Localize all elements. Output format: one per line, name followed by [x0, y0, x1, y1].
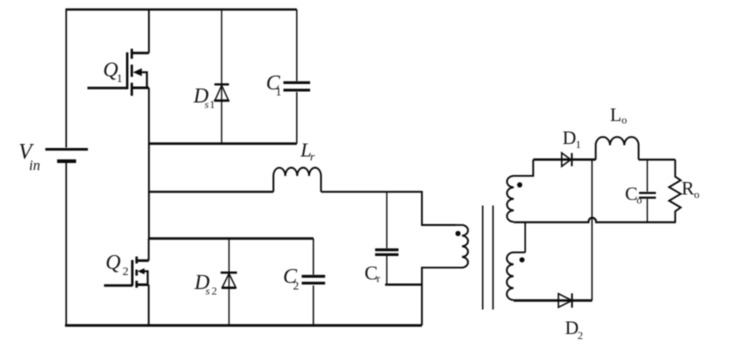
svg-text:r: r	[310, 150, 315, 164]
svg-text:2: 2	[578, 330, 584, 342]
svg-text:in: in	[29, 158, 40, 174]
svg-text:2: 2	[293, 279, 299, 293]
svg-text:o: o	[622, 115, 628, 127]
svg-text:1: 1	[276, 85, 282, 99]
svg-text:r: r	[377, 273, 381, 285]
svg-text:o: o	[637, 195, 643, 207]
svg-text:s: s	[206, 286, 210, 298]
svg-text:1: 1	[117, 71, 123, 85]
svg-text:2: 2	[123, 264, 129, 278]
svg-text:D: D	[563, 128, 577, 149]
svg-text:o: o	[694, 189, 700, 201]
svg-text:L: L	[610, 105, 622, 126]
svg-text:Q: Q	[106, 250, 121, 274]
svg-text:s: s	[205, 99, 209, 111]
svg-text:1: 1	[576, 139, 582, 151]
svg-text:1: 1	[210, 99, 216, 111]
svg-text:2: 2	[212, 286, 218, 298]
svg-text:R: R	[682, 179, 695, 200]
